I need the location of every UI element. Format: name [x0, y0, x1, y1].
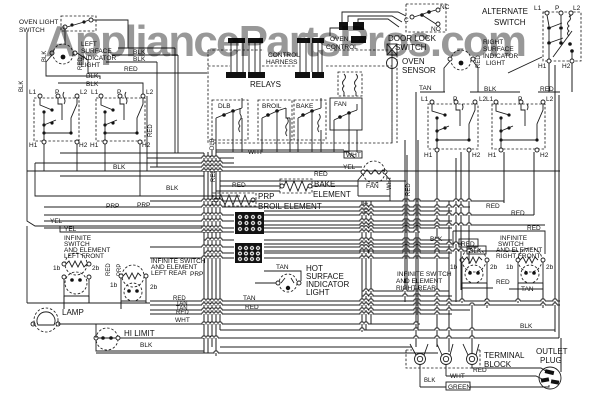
infinite switch left rear SW3 [90, 89, 154, 149]
terminal block ring N [437, 344, 453, 365]
svg-text:RED: RED [314, 171, 328, 178]
svg-text:L1: L1 [91, 89, 99, 96]
svg-text:PRP: PRP [190, 271, 203, 278]
control harness label [208, 50, 392, 66]
svg-text:FAN: FAN [366, 183, 379, 190]
wire switch to indicator [64, 29, 66, 44]
infinite switch left front SW2 [29, 89, 88, 149]
svg-text:TAN: TAN [521, 286, 534, 293]
wire YEL left [27, 171, 234, 233]
oven sensor OS1 [387, 44, 398, 69]
svg-text:BLK: BLK [166, 185, 179, 192]
svg-text:DLB: DLB [218, 103, 231, 110]
svg-text:2b: 2b [490, 264, 498, 271]
relays enclosure [208, 50, 392, 143]
wire BLK pair top [106, 48, 178, 167]
bake element label [313, 164, 356, 199]
svg-text:BLK: BLK [19, 81, 25, 92]
svg-text:RED: RED [232, 182, 246, 189]
svg-text:AND ELEMENT: AND ELEMENT [396, 278, 442, 285]
wire node left bus [26, 32, 28, 171]
wire BLK rows to switches [46, 55, 143, 96]
wire WHT to plug [424, 365, 544, 384]
svg-text:ELEMENT: ELEMENT [313, 190, 351, 199]
svg-text:AppliancePartsPros.com: AppliancePartsPros.com [45, 17, 527, 66]
svg-text:RED: RED [461, 241, 475, 248]
svg-text:YEL: YEL [50, 218, 63, 225]
bake element R1 [280, 179, 312, 193]
svg-text:PRP: PRP [137, 202, 150, 209]
wire fan drop [358, 174, 390, 201]
left surface indicator light label [81, 41, 116, 69]
wire RED to plug [472, 365, 549, 374]
broil element R2 [213, 192, 274, 206]
svg-text:TAN: TAN [419, 85, 432, 92]
relay BAKE K3 [294, 98, 326, 140]
wire RED TAN bottom right [462, 279, 543, 293]
oven control connector bars [339, 22, 366, 43]
svg-text:BLK: BLK [86, 81, 99, 88]
svg-text:L2: L2 [146, 89, 154, 96]
svg-text:LIGHT: LIGHT [306, 288, 330, 297]
svg-text:RELAYS: RELAYS [250, 80, 281, 89]
wire vertical buses [64, 63, 572, 372]
infinite switch right rear label [396, 271, 452, 292]
svg-text:RED: RED [176, 310, 189, 316]
svg-text:H2: H2 [79, 142, 88, 149]
wire RED row [77, 53, 207, 73]
svg-text:PRP: PRP [106, 203, 119, 210]
svg-text:1b: 1b [110, 282, 118, 289]
wire H drops left switches [44, 144, 140, 196]
relay pin stubs [210, 118, 357, 152]
svg-text:L2: L2 [546, 96, 554, 103]
svg-text:L2: L2 [573, 5, 581, 12]
svg-text:PLUG: PLUG [540, 356, 562, 365]
svg-text:ALTERNATE: ALTERNATE [482, 7, 528, 16]
door lock switch label [388, 34, 437, 52]
svg-text:FAN: FAN [334, 101, 347, 108]
svg-text:L1: L1 [421, 96, 429, 103]
infinite switch left front label [64, 235, 110, 260]
svg-text:TERMINAL: TERMINAL [484, 351, 525, 360]
svg-text:TAN: TAN [276, 264, 289, 271]
svg-text:RED: RED [148, 124, 154, 137]
wire hi limit [96, 324, 204, 353]
svg-text:2b: 2b [546, 264, 554, 271]
svg-text:RED: RED [106, 263, 112, 276]
svg-text:BAKE: BAKE [296, 103, 314, 110]
svg-text:RIGHT FRONT: RIGHT FRONT [496, 253, 540, 260]
wire TAN to hot light [255, 264, 301, 283]
svg-text:L1: L1 [29, 89, 37, 96]
svg-text:LAMP: LAMP [62, 308, 84, 317]
svg-text:BROIL: BROIL [262, 103, 282, 110]
terminal block label [406, 350, 525, 369]
terminal block ring L2 [463, 344, 479, 365]
svg-text:H1: H1 [488, 152, 497, 159]
svg-text:SWITCH: SWITCH [19, 27, 45, 34]
svg-text:H1: H1 [424, 152, 433, 159]
svg-text:H1: H1 [90, 142, 99, 149]
element left rear E2 [106, 263, 148, 301]
right surface indicator light label [483, 39, 542, 73]
svg-text:L2: L2 [80, 89, 88, 96]
svg-text:BROIL ELEMENT: BROIL ELEMENT [258, 202, 322, 211]
control harness connector J2 top [297, 38, 324, 72]
svg-text:1b: 1b [506, 264, 514, 271]
svg-text:RED: RED [124, 66, 138, 73]
right surface indicator light [448, 50, 482, 70]
hi limit SW8 [94, 328, 155, 350]
wire from oven light switch to control [93, 20, 128, 48]
wire labels bottom band [173, 295, 259, 324]
svg-text:YEL: YEL [343, 164, 356, 171]
svg-text:H2: H2 [562, 63, 571, 70]
oven light switch label [19, 19, 58, 34]
element left front E1 [53, 253, 100, 296]
wire lamp [27, 303, 204, 324]
wire row WHT 1 [216, 149, 362, 159]
outlet plug P1 [536, 347, 568, 389]
svg-text:WHT: WHT [450, 373, 465, 380]
svg-text:PRP: PRP [258, 192, 274, 201]
hot surface indicator light [276, 274, 301, 292]
wire rows upper right [419, 61, 560, 93]
control harness connector J2 bottom [295, 72, 310, 78]
oven sensor label [402, 57, 436, 75]
wire BLK bus [27, 164, 560, 210]
wire ladder rows with hops [27, 150, 560, 353]
oven light switch SW1 [61, 16, 96, 31]
svg-text:H1: H1 [538, 63, 547, 70]
svg-text:RED: RED [496, 279, 510, 286]
terminal block ring L1 [410, 344, 428, 365]
svg-text:L1: L1 [534, 5, 542, 12]
control harness connector J1 bottom [226, 72, 246, 78]
left surface indicator light [42, 44, 84, 70]
oven sensor drop wires [392, 50, 397, 143]
svg-text:BLK: BLK [424, 378, 435, 384]
fan motor M1 [361, 161, 412, 215]
svg-text:SENSOR: SENSOR [402, 66, 436, 75]
svg-text:L1: L1 [486, 96, 494, 103]
element right rear E3 [450, 248, 498, 283]
svg-text:H2: H2 [540, 152, 549, 159]
svg-text:1b: 1b [53, 265, 61, 272]
svg-text:DLB: DLB [210, 138, 216, 150]
door lock switch SW4 [404, 4, 450, 33]
relay DLB K1 [212, 98, 248, 140]
svg-text:1b: 1b [450, 264, 458, 271]
oven control label [326, 36, 358, 51]
svg-text:2b: 2b [150, 284, 158, 291]
connector grid CN2 [235, 243, 262, 263]
lamp DS1 [31, 308, 84, 332]
infinite switch right front label [496, 235, 542, 260]
alternate switch SW5 [534, 5, 581, 70]
hot surface indicator label [306, 264, 349, 297]
connector grid CN1 [235, 212, 264, 234]
control harness connector J1 top [228, 38, 263, 72]
labels RED BLK right [430, 203, 541, 255]
wire RED right of switches [147, 96, 154, 171]
svg-text:HI LIMIT: HI LIMIT [124, 329, 155, 338]
svg-text:BLK: BLK [86, 73, 99, 80]
svg-text:2b: 2b [92, 265, 100, 272]
infinite switch left rear label [150, 258, 206, 291]
svg-text:H2: H2 [142, 142, 151, 149]
svg-text:H1: H1 [29, 142, 38, 149]
clock coil [338, 72, 362, 96]
infinite switch right front SW7 [486, 96, 554, 159]
relay BROIL K2 [258, 100, 292, 140]
svg-text:BLK: BLK [113, 164, 126, 171]
svg-text:WHT: WHT [346, 152, 361, 159]
wire label PRP [35, 163, 280, 196]
relay FAN K4 [330, 98, 362, 140]
svg-text:NC: NC [440, 4, 450, 11]
svg-text:P: P [555, 5, 559, 12]
element right front E4 [453, 231, 554, 283]
svg-text:BLK: BLK [520, 323, 533, 330]
svg-text:RED: RED [486, 203, 500, 210]
svg-text:H2: H2 [472, 152, 481, 159]
svg-text:WHT: WHT [175, 317, 190, 324]
svg-text:BLK: BLK [140, 342, 153, 349]
svg-text:LEFT REAR: LEFT REAR [151, 270, 187, 277]
svg-text:RED: RED [511, 210, 525, 217]
svg-text:OUTLET: OUTLET [536, 347, 568, 356]
wire GREEN to plug [420, 365, 549, 391]
alternate switch label [482, 7, 528, 27]
infinite switch right rear SW6 [421, 96, 487, 159]
wire loops to door lock [330, 12, 406, 36]
